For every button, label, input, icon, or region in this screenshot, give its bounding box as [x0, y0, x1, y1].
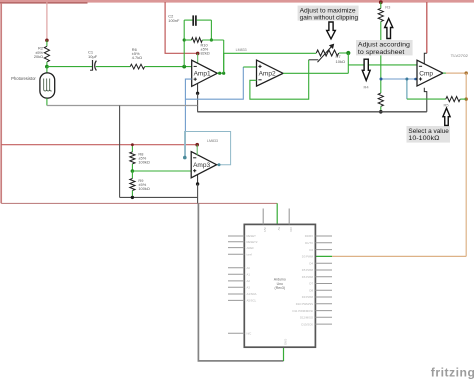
pin Amp1 V-: [197, 84, 199, 94]
svg-text:A4/SDA: A4/SDA: [247, 292, 257, 296]
IC Arduino Uno body: [244, 224, 315, 347]
svg-text:D13/SCK: D13/SCK: [301, 322, 313, 326]
svg-text:(Rev3): (Rev3): [275, 286, 286, 290]
pin Amp3 V+: [196, 145, 198, 155]
svg-text:3V3: 3V3: [263, 227, 267, 232]
node Cmp out corner: [465, 71, 468, 74]
op-amp Amp3: [191, 152, 216, 178]
wire orange to Arduino D3: [332, 255, 466, 257]
svg-text:82kΩ: 82kΩ: [201, 50, 210, 55]
wire R6 to Amp1 minus: [145, 66, 192, 68]
svg-text:10µF: 10µF: [88, 54, 98, 59]
capacitor C1: [88, 50, 98, 71]
node pot output: [346, 51, 350, 55]
pin Arduino 5V stub (green): [276, 203, 278, 224]
node Amp1 output dot: [218, 72, 221, 75]
wire Amp1 V- to gnd bus: [197, 93, 199, 112]
wire gnd photoresistor (gray y=105.5): [47, 105, 198, 107]
svg-text:D6 PWM: D6 PWM: [302, 275, 314, 279]
svg-text:Amp3: Amp3: [193, 162, 210, 169]
svg-text:Cmp: Cmp: [419, 70, 433, 77]
wire Amp1 out to pot (y=53.3): [224, 53, 317, 73]
svg-text:to spreadsheet: to spreadsheet: [358, 49, 405, 56]
wire gnd bus (y=111.8): [197, 111, 426, 113]
svg-text:A1: A1: [247, 272, 251, 276]
svg-text:D1/TX: D1/TX: [305, 241, 313, 245]
svg-text:D3 PWM: D3 PWM: [302, 255, 314, 259]
svg-text:Select a value: Select a value: [408, 128, 449, 135]
svg-text:Adjust according: Adjust according: [358, 42, 410, 49]
resistor R3: [378, 2, 391, 79]
callout box 3: [407, 126, 451, 143]
svg-text:D4: D4: [309, 261, 313, 265]
svg-text:Adjust to maximize: Adjust to maximize: [300, 7, 356, 14]
wire pot node vertical: [347, 53, 349, 73]
svg-text:D7: D7: [309, 282, 313, 286]
pin Amp1 V+ stub: [197, 53, 199, 63]
op-amp Cmp: [417, 60, 443, 86]
callout box 1: [298, 6, 359, 21]
wire Amp2 output: [283, 72, 348, 74]
svg-text:D2: D2: [309, 248, 313, 252]
node Amp1 V+ dot: [196, 52, 200, 56]
svg-text:A2: A2: [247, 279, 251, 283]
node R2/photoresistor junction: [45, 65, 49, 69]
resistor R4: [364, 79, 384, 112]
node Amp3 output dot: [218, 163, 221, 166]
wire gnd to Arduino (gray): [198, 203, 283, 361]
labels Arduino left pins: [247, 234, 258, 335]
node Amp3 V+ dot: [195, 143, 199, 147]
wire Amp2 minus (green): [250, 60, 309, 99]
labels Arduino right pins: [293, 234, 314, 326]
wire gnd left drop (x=119.6): [119, 106, 121, 198]
wire C2 left vertical (x=184.2): [183, 20, 185, 67]
pin Cmp V-: [424, 88, 427, 112]
wire Amp1 V+ (red, x=165): [165, 2, 198, 53]
resistor R10: [184, 38, 224, 56]
wire V+ top bus pale red: [0, 0, 474, 3]
node R8/R9 junction: [131, 169, 135, 173]
resistor R8: [130, 145, 150, 171]
wire blue to Amp2+: [185, 67, 243, 99]
svg-text:D8: D8: [309, 289, 313, 293]
node Amp1 minus junction: [182, 65, 186, 69]
svg-text:D12/MISO: D12/MISO: [300, 316, 314, 320]
wire C1 to R6: [96, 66, 130, 68]
resistor R6: [130, 47, 144, 69]
node R8 top tick: [131, 143, 134, 146]
svg-text:TLV2702: TLV2702: [451, 53, 469, 58]
svg-text:Amp1: Amp1: [194, 71, 211, 78]
node Amp3 V- dot: [196, 182, 199, 185]
svg-text:D0/RX: D0/RX: [305, 234, 313, 238]
wire divider to Amp3 plus: [132, 170, 191, 172]
svg-text:A5/SCL: A5/SCL: [247, 299, 257, 303]
svg-text:100kΩ: 100kΩ: [138, 160, 149, 165]
wire Cmp V+ (red, x=426.8): [426, 2, 428, 53]
wire blue Amp1+ down: [185, 79, 191, 131]
svg-text:R3: R3: [385, 5, 391, 10]
svg-text:RESET: RESET: [247, 234, 257, 238]
wire green into Amp2 plus: [243, 66, 256, 68]
node Cmp plus wire end: [414, 78, 417, 81]
svg-text:LM833: LM833: [236, 48, 247, 52]
op-amp Amp2: [257, 60, 284, 86]
capacitor C2: [168, 14, 211, 26]
pins Arduino right: [315, 236, 332, 324]
callout box 2: [356, 40, 413, 55]
node feedback junction: [222, 72, 225, 75]
pins Arduino left: [228, 236, 244, 333]
arrow callout3 up (to R5): [443, 108, 450, 125]
svg-text:Photoresistor: Photoresistor: [11, 76, 36, 81]
labels Arduino top pins: [263, 227, 293, 232]
svg-text:AREF: AREF: [247, 246, 255, 250]
pin Cmp V+ stub: [424, 53, 427, 64]
wire blue to Cmp plus: [381, 78, 417, 80]
svg-text:20kΩ: 20kΩ: [34, 54, 43, 59]
svg-text:VIN: VIN: [289, 227, 293, 232]
svg-text:D11 PWM/MOSI: D11 PWM/MOSI: [293, 309, 314, 313]
svg-text:A0: A0: [247, 266, 251, 270]
svg-text:gain without clipping: gain without clipping: [300, 15, 359, 22]
wire R5 node (teal hysteresis): [406, 79, 408, 99]
svg-text:100kΩ: 100kΩ: [138, 186, 149, 191]
wire V+ branch to Amp3 (y=144.6): [1, 144, 197, 146]
svg-text:N/C: N/C: [247, 331, 252, 335]
resistor R9: [130, 171, 150, 197]
svg-text:10kΩ: 10kΩ: [336, 59, 345, 64]
wire teal down to Amp3 minus node: [184, 132, 186, 158]
photoresistor: [11, 67, 55, 106]
resistor R5: [444, 97, 467, 108]
node R3 top dot: [379, 0, 383, 4]
wire Amp3 V- to gnd: [197, 184, 199, 203]
resistor R2: [34, 40, 50, 66]
node R4 gnd dot: [379, 110, 383, 114]
svg-text:GND: GND: [284, 339, 288, 345]
svg-text:ioref: ioref: [247, 253, 253, 257]
wire Amp3 feedback (teal): [185, 132, 231, 165]
svg-text:fritzing: fritzing: [431, 365, 474, 379]
node R5 orange junction: [465, 97, 468, 100]
svg-text:Amp2: Amp2: [259, 71, 276, 78]
arrow callout2 up (to R3): [385, 19, 393, 39]
wire to Cmp minus: [348, 64, 417, 66]
svg-text:D10 PWM/SS: D10 PWM/SS: [296, 302, 313, 306]
wire feedback right vertical (x=223.7): [223, 40, 225, 73]
wire C2 right vertical: [210, 20, 212, 40]
wire V+ to Arduino 5V (y=203.3): [1, 202, 277, 204]
svg-text:D9 PWM: D9 PWM: [302, 295, 314, 299]
svg-text:D5 PWM: D5 PWM: [302, 268, 314, 272]
node R9 gnd dot: [131, 196, 134, 199]
wire wiper stub (black): [309, 59, 319, 61]
svg-text:10-100kΩ: 10-100kΩ: [408, 135, 439, 142]
svg-text:4.7kΩ: 4.7kΩ: [132, 55, 142, 60]
arrow callout1 down: [327, 22, 336, 39]
pin Amp3 V-: [197, 175, 199, 184]
svg-text:100nF: 100nF: [168, 18, 180, 23]
wire V+ top bus dark overlay: [0, 2, 88, 4]
pins Arduino top: [263, 209, 289, 225]
node R10 right: [210, 38, 213, 41]
svg-text:5V: 5V: [277, 227, 281, 231]
wire gnd row (y=197.4): [120, 196, 198, 198]
op-amp Amp1: [192, 60, 218, 86]
pin Arduino GND stub (green): [283, 347, 285, 361]
wire orange vertical: [465, 73, 467, 256]
potentiometer R7: [316, 44, 345, 65]
svg-text:RESET2: RESET2: [247, 240, 258, 244]
arrow callout2 down (to R4): [362, 59, 370, 80]
svg-text:A3: A3: [247, 286, 251, 290]
svg-text:R4: R4: [364, 85, 370, 90]
wire Amp1 output: [217, 72, 223, 74]
node R2 top dot: [45, 39, 49, 43]
node Amp1 V- dot: [196, 92, 199, 95]
wire pot right lead: [339, 52, 348, 54]
svg-text:LM833: LM833: [207, 139, 218, 143]
node C2/R10 left: [183, 38, 186, 41]
wire signal green y=66.6 to C1: [47, 66, 92, 68]
wire Cmp output stub (green): [443, 72, 446, 74]
wire R2 top (pale red vertical): [46, 2, 48, 40]
pin D3 connected stub (green): [315, 255, 332, 257]
node Amp3 minus dot: [183, 156, 187, 160]
wire left V+ vertical: [0, 3, 2, 203]
node Cmp plus junctions: [380, 78, 383, 81]
wire Cmp output (orange): [446, 72, 467, 74]
